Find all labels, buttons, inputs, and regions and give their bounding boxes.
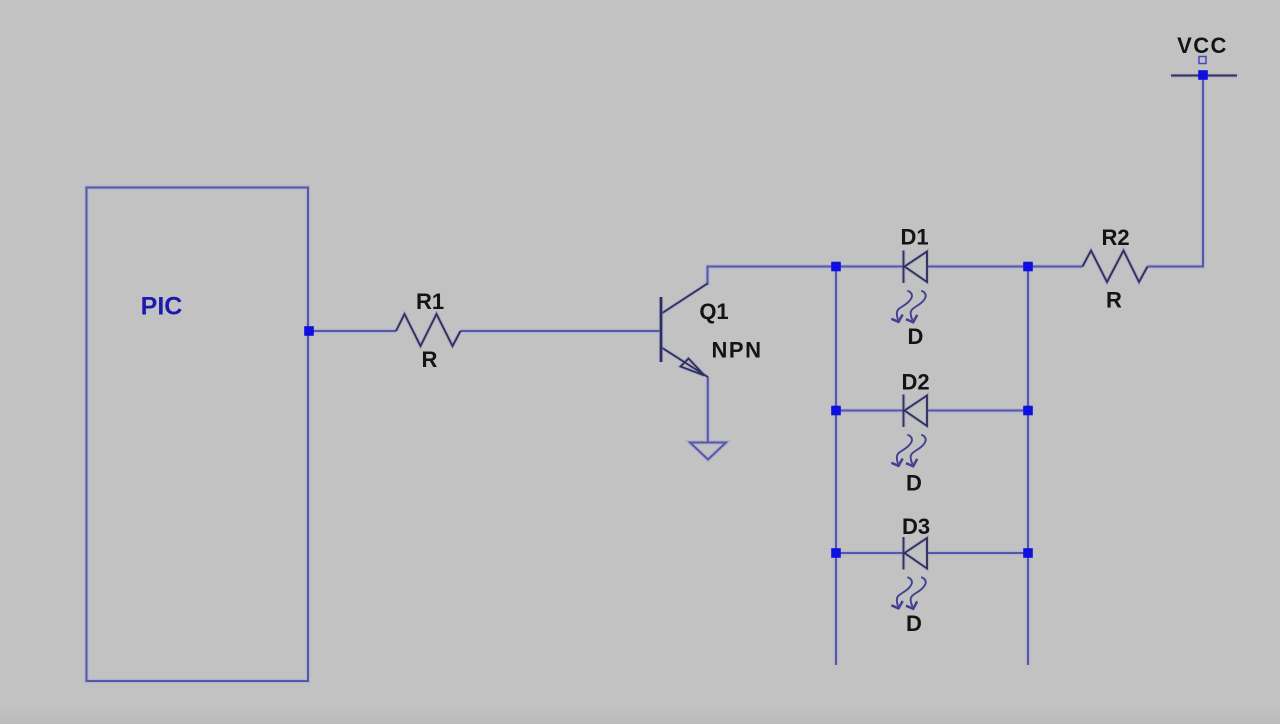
svg-text:R1: R1 xyxy=(416,289,444,314)
svg-text:D1: D1 xyxy=(900,225,928,250)
svg-text:D: D xyxy=(906,611,922,636)
svg-text:VCC: VCC xyxy=(1177,33,1228,58)
svg-text:D2: D2 xyxy=(901,370,929,395)
svg-text:R: R xyxy=(1106,288,1122,313)
svg-text:R2: R2 xyxy=(1101,225,1129,250)
svg-text:NPN: NPN xyxy=(712,338,763,363)
svg-text:D3: D3 xyxy=(902,514,930,539)
svg-text:D: D xyxy=(906,471,922,496)
svg-text:Q1: Q1 xyxy=(699,299,728,324)
svg-text:D: D xyxy=(908,324,924,349)
svg-text:PIC: PIC xyxy=(141,293,183,321)
svg-text:R: R xyxy=(422,347,438,372)
